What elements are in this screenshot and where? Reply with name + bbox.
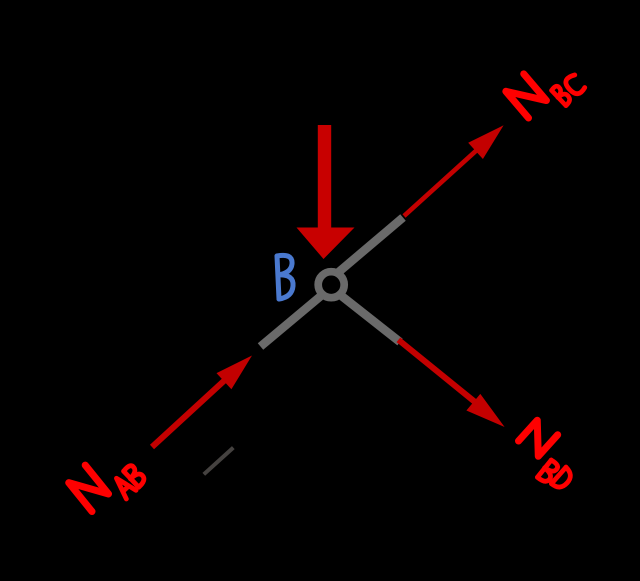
force arrow N_BD xyxy=(398,340,504,427)
section tick mark xyxy=(204,448,234,475)
label B (joint name, blue) xyxy=(277,255,293,299)
joint pin B xyxy=(318,272,344,298)
applied load arrow (downward) xyxy=(297,125,355,259)
member AB bar xyxy=(261,290,329,347)
member BD bar xyxy=(334,290,400,342)
label N_AB xyxy=(66,441,147,521)
force arrow N_BC xyxy=(404,125,504,216)
label N_BD xyxy=(508,418,587,494)
member BC bar xyxy=(334,218,403,277)
label N_BC xyxy=(504,49,586,130)
force arrow N_AB xyxy=(152,356,252,448)
